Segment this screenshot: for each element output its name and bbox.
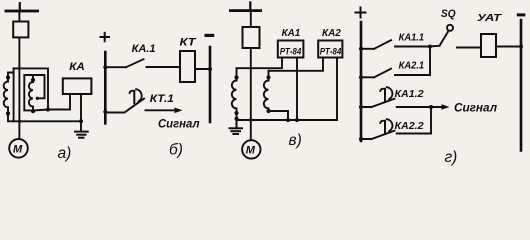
label minus G: [517, 13, 526, 16]
contact KA1.1: [361, 40, 430, 49]
wire outer loop left side: [13, 68, 15, 121]
contact KA1.2 time-delay: [361, 87, 431, 107]
svg-text:Сигнал: Сигнал: [158, 119, 200, 131]
node TA4 top: [266, 75, 270, 79]
wire YAT to right bus: [496, 46, 521, 48]
right bus G: [520, 20, 523, 151]
node SQ junction: [428, 45, 432, 49]
wire TA4 top to KA2: [269, 58, 324, 71]
svg-text:КА1: КА1: [282, 27, 301, 39]
ground symbol V: [230, 120, 243, 134]
busbar A: [5, 3, 40, 12]
wire KA right pin to ground: [80, 94, 82, 131]
node inner loop stub: [36, 97, 39, 100]
svg-text:в): в): [289, 132, 302, 149]
svg-text:М: М: [246, 145, 256, 157]
node KA1-common junction: [295, 118, 299, 122]
node TA1 bottom: [6, 111, 10, 115]
wire feeder to motor V: [250, 48, 252, 140]
wire h2 to relay KA: [32, 94, 70, 111]
relay KA2 box: [318, 41, 342, 58]
svg-text:г): г): [445, 149, 458, 166]
svg-text:М: М: [13, 144, 23, 156]
wire busbar to breaker QF: [18, 12, 20, 21]
node TA2 bottom: [31, 109, 35, 113]
left bus G: [360, 22, 363, 141]
busbar V: [229, 2, 262, 12]
svg-text:РТ-84: РТ-84: [280, 47, 302, 58]
svg-text:КА1.1: КА1.1: [399, 32, 425, 44]
svg-text:РТ-84: РТ-84: [320, 47, 342, 58]
CT TA4 secondary coil: [264, 71, 269, 111]
right bus B: [209, 47, 212, 122]
circuit breaker QF (box): [13, 22, 28, 38]
wire TA3 top to KA1: [237, 58, 283, 78]
relay KT box: [180, 51, 195, 82]
label plus G: [356, 8, 366, 18]
label minus B: [205, 34, 215, 37]
node TA4 bottom: [266, 109, 270, 113]
contact KA2.1: [361, 47, 430, 78]
svg-text:КА2.2: КА2.2: [395, 120, 424, 132]
node TA3 top: [234, 75, 238, 79]
wire busbar to breaker V: [250, 12, 252, 27]
wire TA1 bottom h3 to ground line: [8, 114, 81, 122]
relay KA1 box: [278, 41, 304, 58]
svg-text:а): а): [58, 145, 72, 162]
node YAT-bus junction: [519, 45, 523, 49]
wire TA4 bottom jog to common: [269, 111, 289, 120]
contact KA2.2 time-delay: [361, 107, 431, 139]
svg-text:УАТ: УАТ: [477, 12, 503, 24]
node TA3 bottom: [234, 111, 238, 115]
node KA.1 branch: [103, 65, 107, 69]
CT TA1 secondary coil: [4, 77, 8, 114]
ground symbol A: [75, 132, 88, 138]
label plus B: [101, 33, 110, 41]
arrow signal B: [146, 108, 183, 114]
node TA2 top: [31, 78, 35, 82]
CT TA2 secondary coil: [29, 79, 33, 111]
svg-text:КТ: КТ: [180, 37, 197, 49]
arrow signal G: [431, 104, 450, 110]
node feeder-W2 crossing blob: [18, 67, 21, 70]
wire TA1 top loop: [8, 68, 48, 109]
svg-text:КА1.2: КА1.2: [395, 88, 424, 100]
wire KA2 right pin to common: [336, 58, 338, 121]
node feeder-common crossing blob: [249, 118, 252, 121]
motor M circle: [9, 139, 28, 158]
switch SQ: [430, 25, 481, 48]
wire feeder to motor: [18, 37, 20, 138]
contact KT.1 time-delay: [105, 89, 144, 112]
svg-text:КА2: КА2: [322, 27, 341, 39]
svg-text:б): б): [169, 142, 183, 159]
node signal junction G: [429, 105, 433, 109]
node KA2.1 branch: [359, 75, 363, 79]
wire TA2 inner loop: [24, 75, 44, 110]
svg-text:КА2.1: КА2.1: [399, 59, 425, 71]
node KT.1 branch: [103, 110, 107, 114]
node loop-h2 junction: [46, 107, 50, 111]
node h3-ground junction: [79, 119, 83, 123]
node TA4-common junction: [286, 118, 290, 122]
node common-ground junction: [235, 117, 239, 121]
node KA1.1 branch: [359, 47, 363, 51]
wire common return: [237, 119, 338, 121]
relay KA box: [63, 78, 92, 94]
svg-text:КА: КА: [69, 61, 85, 73]
svg-text:Сигнал: Сигнал: [454, 103, 497, 115]
wire KT to right bus: [195, 68, 210, 70]
node KA1.2 branch: [359, 105, 363, 109]
motor M circle V: [242, 140, 260, 158]
contact KA.1: [105, 59, 180, 67]
svg-text:КА.1: КА.1: [132, 43, 156, 55]
node KT-bus junction: [208, 67, 212, 71]
svg-text:SQ: SQ: [441, 8, 456, 20]
node TA1 top: [6, 75, 10, 79]
trip coil YAT box: [481, 34, 496, 57]
circuit breaker QF V: [243, 27, 260, 48]
wire KA1 right pin to common: [296, 58, 298, 121]
node feeder-h3 crossing blob: [18, 120, 21, 123]
svg-text:КТ.1: КТ.1: [150, 93, 174, 105]
CT TA3 secondary coil: [232, 78, 237, 120]
node KA2.2 branch: [359, 137, 363, 141]
left bus B: [104, 52, 107, 123]
